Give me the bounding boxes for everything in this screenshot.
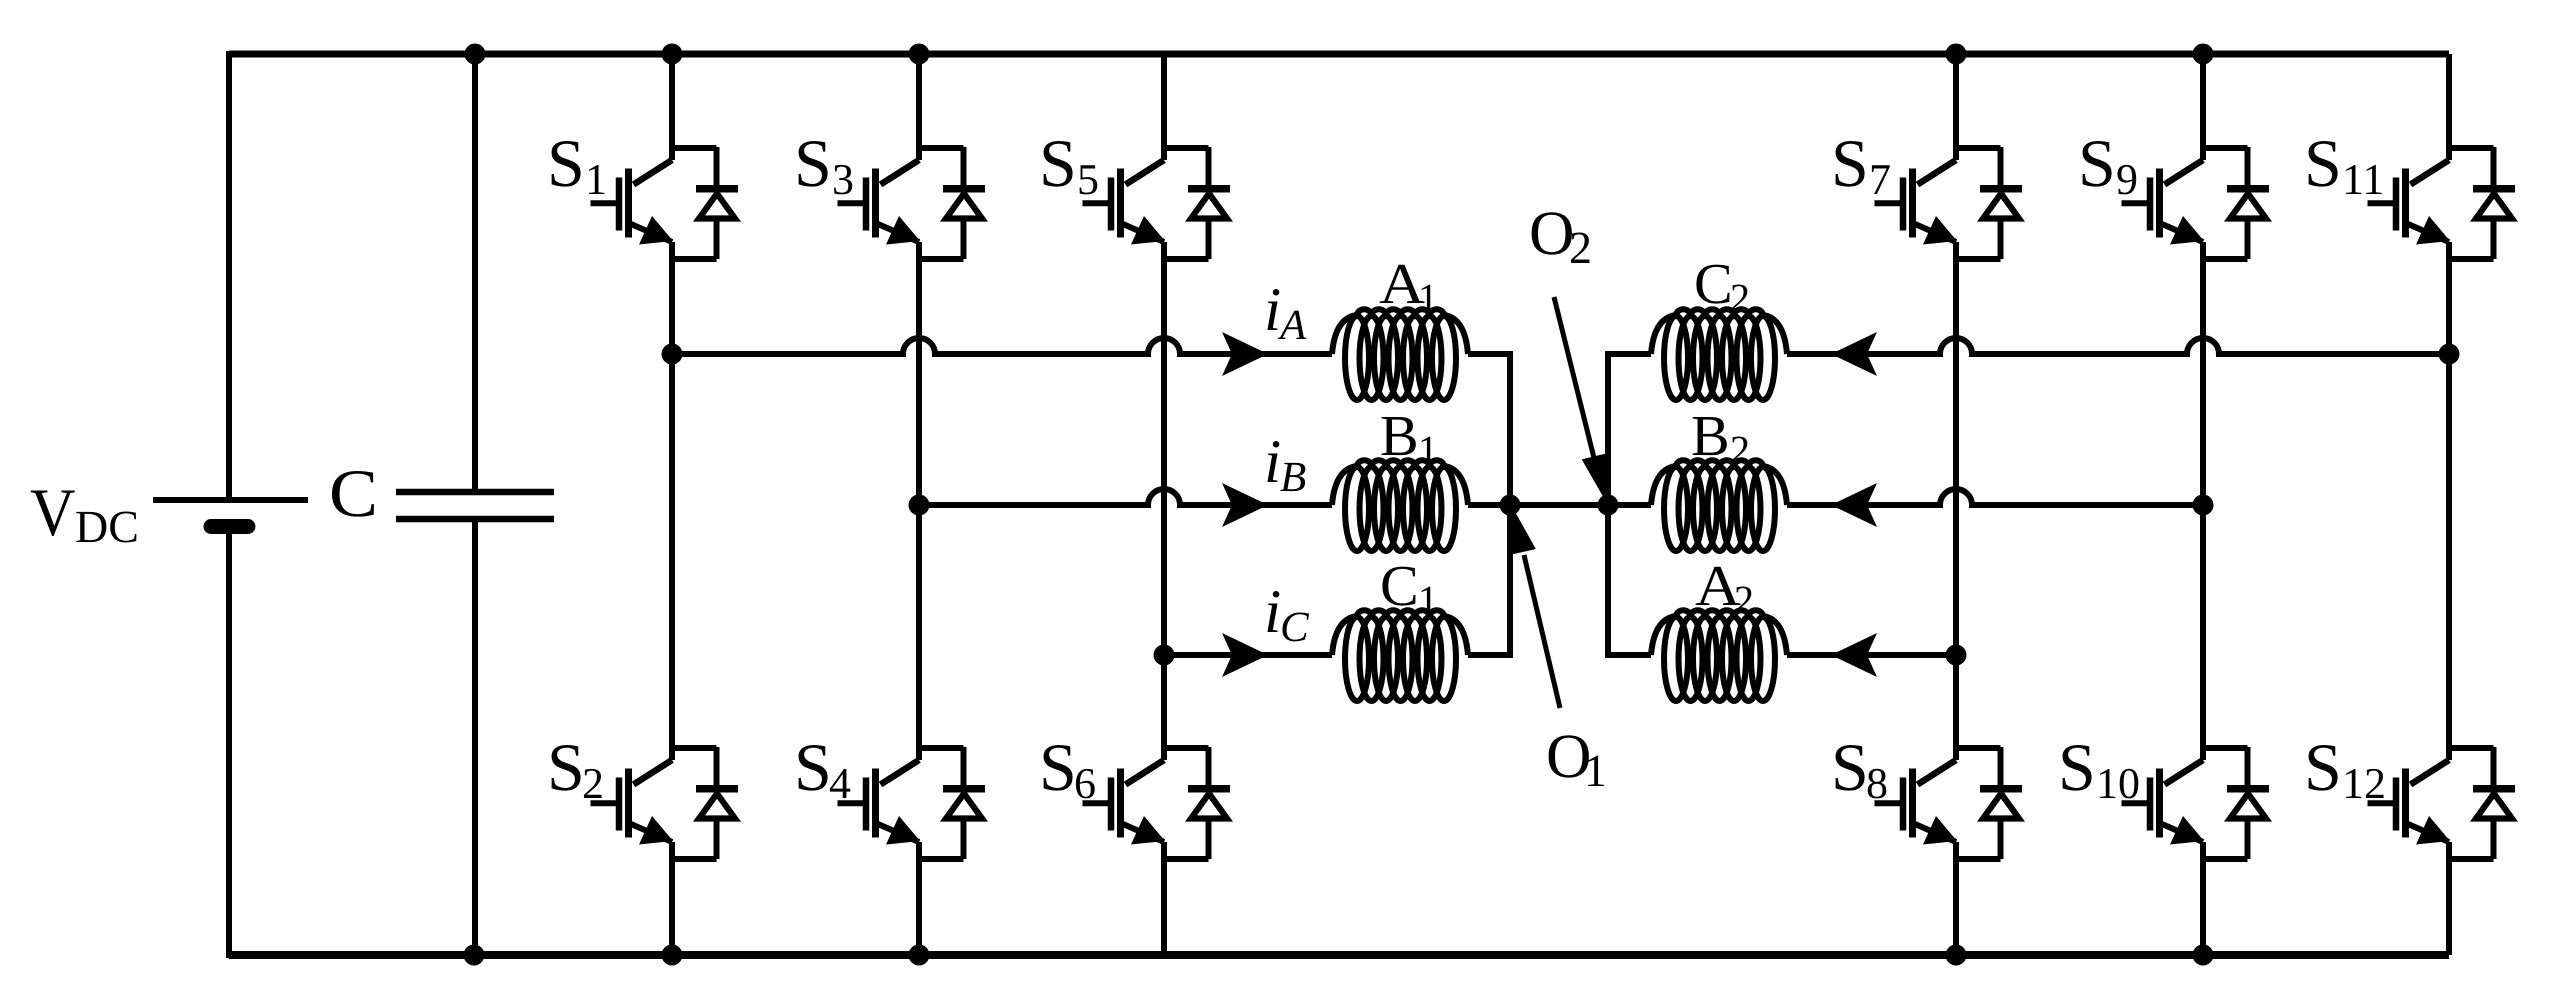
arrow current into A2 bbox=[1831, 633, 1877, 677]
svg-text:1: 1 bbox=[585, 155, 607, 204]
wire B1 output to node O1 bbox=[1468, 502, 1510, 508]
svg-text:2: 2 bbox=[582, 759, 604, 808]
svg-text:2: 2 bbox=[1569, 222, 1592, 273]
battery VDC negative plate bbox=[211, 519, 248, 534]
battery VDC positive lead wire bbox=[226, 51, 232, 497]
svg-text:2: 2 bbox=[1734, 577, 1754, 622]
arrow current iC bbox=[1222, 633, 1268, 677]
svg-text:8: 8 bbox=[1866, 759, 1888, 808]
junction top rail x S7 leg bbox=[1946, 44, 1967, 65]
junction top rail x S9 leg bbox=[2193, 44, 2214, 65]
svg-text:S: S bbox=[2304, 125, 2342, 201]
svg-text:1: 1 bbox=[1584, 745, 1607, 796]
svg-text:S: S bbox=[1039, 125, 1077, 201]
svg-text:i: i bbox=[1264, 276, 1281, 344]
transistor S8 (IGBT with antiparallel diode) bbox=[1875, 747, 2023, 859]
svg-text:DC: DC bbox=[75, 501, 139, 552]
transistor S10 (IGBT with antiparallel diode) bbox=[2122, 747, 2270, 859]
wire phase B line (S3 midpoint to B1, hops over S5 leg) bbox=[919, 489, 1332, 505]
svg-text:V: V bbox=[30, 474, 76, 550]
svg-text:S: S bbox=[2078, 125, 2116, 201]
wire link O1 to O2 bbox=[1510, 502, 1608, 508]
transistor S7 (IGBT with antiparallel diode) bbox=[1875, 147, 2023, 259]
wire emitter lead S10 (IGBT to bottom rail) bbox=[2200, 842, 2206, 955]
inductor A2 (phase A winding, right) bbox=[1651, 610, 1787, 701]
wire right star vertical (A2/B2/C2 common) bbox=[1605, 354, 1611, 655]
transistor S4 (IGBT with antiparallel diode) bbox=[838, 747, 986, 859]
svg-text:11: 11 bbox=[2342, 155, 2384, 204]
wire O2 vertical to C2 input bbox=[1605, 351, 1651, 357]
wire leg midpoint S5-S6 (emitter S5 to collector S6) bbox=[1161, 242, 1167, 760]
node phase midpoint S5/S6 bbox=[1154, 645, 1175, 666]
svg-text:S: S bbox=[1039, 729, 1077, 805]
wire leg midpoint S7-S8 (emitter S7 to collector S8) bbox=[1953, 242, 1959, 760]
wire C1 output to left star vertical bbox=[1468, 652, 1513, 658]
wire top DC bus rail (+) bbox=[229, 51, 2449, 58]
svg-text:S: S bbox=[794, 125, 832, 201]
wire left star vertical (A1/B1/C1 common) bbox=[1507, 354, 1513, 655]
svg-text:5: 5 bbox=[1077, 155, 1099, 204]
transistor S2 (IGBT with antiparallel diode) bbox=[591, 747, 739, 859]
svg-text:3: 3 bbox=[832, 155, 854, 204]
svg-text:6: 6 bbox=[1074, 759, 1096, 808]
inductor C2 (phase C winding, right) bbox=[1651, 309, 1787, 400]
arrow current into C2 bbox=[1831, 332, 1877, 376]
inductor C1 (phase C winding, left) bbox=[1332, 610, 1468, 701]
node phase midpoint S11/S12 bbox=[2439, 344, 2460, 365]
node phase midpoint S9/S10 bbox=[2193, 495, 2214, 516]
junction top rail x capacitor bbox=[465, 44, 486, 65]
svg-text:7: 7 bbox=[1869, 155, 1891, 204]
junction top rail x S1 leg bbox=[662, 44, 683, 65]
svg-text:9: 9 bbox=[2116, 155, 2138, 204]
wire collector lead S5 (top rail to IGBT) bbox=[1161, 54, 1167, 160]
svg-text:2: 2 bbox=[1730, 275, 1750, 320]
wire collector lead S11 (top rail to IGBT) bbox=[2446, 54, 2452, 160]
svg-text:A: A bbox=[1277, 302, 1307, 349]
svg-text:S: S bbox=[2058, 729, 2096, 805]
svg-text:B: B bbox=[1380, 403, 1419, 468]
wire O2 to B2 input bbox=[1608, 502, 1651, 508]
battery VDC positive plate bbox=[153, 497, 308, 503]
junction top rail x S3 leg bbox=[909, 44, 930, 65]
capacitor C bottom lead wire bbox=[472, 522, 478, 958]
svg-text:4: 4 bbox=[829, 759, 851, 808]
wire emitter lead S6 (IGBT to bottom rail) bbox=[1161, 842, 1167, 955]
transistor S9 (IGBT with antiparallel diode) bbox=[2122, 147, 2270, 259]
wire leg midpoint S1-S2 (emitter S1 to collector S2) bbox=[669, 242, 675, 760]
svg-text:10: 10 bbox=[2096, 759, 2140, 808]
svg-text:O: O bbox=[1529, 198, 1575, 268]
arrow current into B2 bbox=[1831, 483, 1877, 527]
svg-text:S: S bbox=[547, 125, 585, 201]
wire collector lead S9 (top rail to IGBT) bbox=[2200, 54, 2206, 160]
node O1 (left neutral point) bbox=[1500, 495, 1521, 516]
svg-text:1: 1 bbox=[1418, 275, 1438, 320]
svg-text:C: C bbox=[1280, 604, 1310, 651]
arrow current iB bbox=[1222, 483, 1268, 527]
capacitor C bottom plate bbox=[396, 516, 554, 523]
node O2 (right neutral point) bbox=[1598, 495, 1619, 516]
svg-text:C: C bbox=[1694, 251, 1733, 316]
svg-text:i: i bbox=[1264, 578, 1281, 646]
battery VDC negative lead wire bbox=[226, 532, 232, 958]
svg-text:S: S bbox=[547, 729, 585, 805]
transistor S11 (IGBT with antiparallel diode) bbox=[2368, 147, 2516, 259]
wire emitter lead S4 (IGBT to bottom rail) bbox=[916, 842, 922, 955]
wire collector lead S3 (top rail to IGBT) bbox=[916, 54, 922, 160]
inductor B1 (phase B winding, left) bbox=[1332, 460, 1468, 551]
arrow callout O1 (points to node O1) bbox=[1524, 555, 1560, 708]
junction bottom rail x S2 leg bbox=[662, 945, 683, 966]
wire leg midpoint S11-S12 (emitter S11 to collector S12) bbox=[2446, 242, 2452, 760]
node phase midpoint S3/S4 bbox=[909, 495, 930, 516]
svg-text:S: S bbox=[2304, 729, 2342, 805]
svg-text:C: C bbox=[329, 455, 378, 531]
transistor S6 (IGBT with antiparallel diode) bbox=[1083, 747, 1231, 859]
junction bottom rail x S4 leg bbox=[909, 945, 930, 966]
junction bottom rail x S10 leg bbox=[2193, 945, 2214, 966]
wire phase A2 line (A2 to S7 midpoint) bbox=[1787, 652, 1956, 658]
junction bottom rail x capacitor bbox=[464, 945, 485, 966]
wire phase C line (S5 midpoint to C1) bbox=[1164, 652, 1332, 658]
wire emitter lead S12 (IGBT to bottom rail) bbox=[2446, 842, 2452, 955]
svg-text:12: 12 bbox=[2342, 759, 2386, 808]
inductor A1 (phase A winding, left) bbox=[1332, 309, 1468, 400]
svg-text:2: 2 bbox=[1730, 427, 1750, 472]
transistor S5 (IGBT with antiparallel diode) bbox=[1083, 147, 1231, 259]
wire phase B2 line (B2 to S9 midpoint, hops over S7 leg) bbox=[1787, 489, 2203, 505]
wire collector lead S1 (top rail to IGBT) bbox=[669, 54, 675, 160]
svg-text:C: C bbox=[1380, 553, 1419, 618]
wire O2 vertical to A2 input bbox=[1605, 652, 1651, 658]
wire emitter lead S8 (IGBT to bottom rail) bbox=[1953, 842, 1959, 955]
wire leg midpoint S3-S4 (emitter S3 to collector S4) bbox=[916, 242, 922, 760]
wire emitter lead S2 (IGBT to bottom rail) bbox=[669, 842, 675, 955]
transistor S12 (IGBT with antiparallel diode) bbox=[2368, 747, 2516, 859]
transistor S3 (IGBT with antiparallel diode) bbox=[838, 147, 986, 259]
junction bottom rail x S8 leg bbox=[1946, 945, 1967, 966]
node phase midpoint S7/S8 bbox=[1946, 645, 1967, 666]
svg-text:S: S bbox=[1831, 729, 1869, 805]
wire phase C2 line (C2 to S11 midpoint, hops over S7 and S9 legs) bbox=[1787, 338, 2449, 354]
svg-text:i: i bbox=[1264, 428, 1281, 496]
inductor B2 (phase B winding, right) bbox=[1651, 460, 1787, 551]
svg-text:1: 1 bbox=[1418, 577, 1438, 622]
transistor S1 (IGBT with antiparallel diode) bbox=[591, 147, 739, 259]
svg-text:B: B bbox=[1691, 403, 1730, 468]
wire leg midpoint S9-S10 (emitter S9 to collector S10) bbox=[2200, 242, 2206, 760]
wire A1 output to left star vertical bbox=[1468, 351, 1513, 357]
svg-text:B: B bbox=[1280, 454, 1306, 501]
svg-text:S: S bbox=[1831, 125, 1869, 201]
capacitor C top plate bbox=[396, 489, 554, 496]
wire phase A line (S1 midpoint to A1, hops over S3 and S5 legs) bbox=[672, 338, 1332, 354]
capacitor C top lead wire bbox=[472, 51, 478, 489]
svg-text:1: 1 bbox=[1418, 427, 1438, 472]
svg-text:S: S bbox=[794, 729, 832, 805]
arrow callout O2 (points to node O2) bbox=[1554, 297, 1594, 458]
node phase midpoint S1/S2 bbox=[662, 344, 683, 365]
arrow current iA bbox=[1222, 332, 1268, 376]
wire collector lead S7 (top rail to IGBT) bbox=[1953, 54, 1959, 160]
wire bottom DC bus rail (-) bbox=[229, 951, 2449, 959]
